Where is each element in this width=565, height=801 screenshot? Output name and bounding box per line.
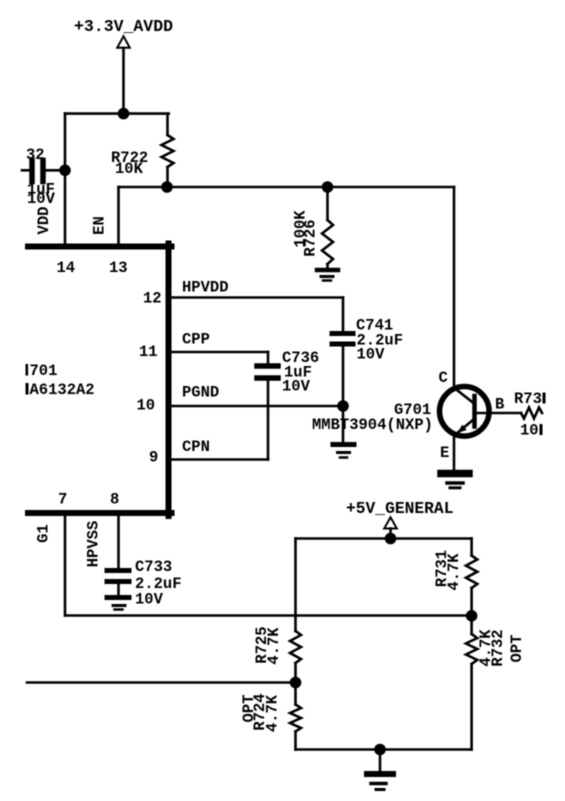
value label 10V: [27, 190, 56, 208]
ground bottom: [367, 774, 393, 790]
label C736: [282, 349, 319, 367]
svg-text:HPVDD: HPVDD: [182, 279, 229, 297]
pin name HPVSS: [85, 521, 103, 568]
wire top horizontal: [65, 112, 169, 115]
IC part TPA6132A2 partial: [26, 381, 95, 399]
resistor R722: [162, 114, 174, 187]
wire ground stub bottom: [379, 750, 382, 772]
node junction PGND C741: [337, 400, 349, 412]
pin number 10: [137, 397, 156, 415]
pin number 9: [149, 449, 158, 467]
wire EN pin 13 drop: [117, 187, 120, 245]
svg-text:11: 11: [139, 343, 158, 361]
power +3.3V_AVDD arrow: [117, 36, 130, 113]
value 4.7K rotated: [264, 694, 282, 732]
ground under C741: [333, 445, 354, 458]
resistor R732: [466, 616, 477, 750]
svg-text:R73: R73: [514, 390, 542, 408]
node junction R722: [161, 181, 173, 193]
svg-text:7: 7: [58, 491, 67, 509]
svg-text:8: 8: [110, 491, 119, 509]
IC refdes U701 partial: [26, 362, 58, 380]
resistor R724: [290, 683, 301, 750]
svg-text:4.7K: 4.7K: [264, 694, 282, 732]
label R724 rotated: [251, 693, 269, 730]
label R731 rotated: [433, 550, 451, 587]
pin name G1: [35, 524, 53, 543]
capacitor C733: [107, 516, 129, 596]
svg-text:R726: R726: [302, 219, 320, 256]
value 4.7K rotated: [265, 627, 283, 665]
resistor R725: [290, 631, 301, 683]
svg-text:C: C: [439, 369, 448, 387]
pin name VDD: [35, 207, 53, 235]
wire HPVDD drop to C741: [342, 298, 345, 333]
wire CPP pin 11: [170, 351, 268, 354]
value 10V: [357, 346, 386, 364]
wire base: [475, 412, 522, 415]
resistor R73x (cut at right): [521, 408, 542, 419]
node junction cap: [59, 165, 71, 177]
resistor R731: [466, 556, 477, 616]
value 10K: [115, 160, 144, 178]
wire from left edge: [27, 681, 296, 684]
pin number 13: [109, 259, 128, 277]
svg-text:10: 10: [520, 422, 539, 440]
label R73 partial: [514, 390, 546, 408]
svg-text:+3.3V_AVDD: +3.3V_AVDD: [74, 17, 173, 36]
capacitor C732 (cut at left edge): [22, 161, 65, 182]
wire CPN pin 9: [170, 458, 268, 461]
svg-text:R732: R732: [489, 629, 507, 666]
svg-text:13: 13: [109, 259, 128, 277]
ground under emitter: [441, 474, 469, 488]
wire left branch VDD pin 14: [64, 114, 67, 245]
wire HPVDD pin 12: [170, 296, 343, 299]
svg-text:E: E: [440, 444, 449, 462]
pin number 12: [143, 290, 162, 308]
wire EN horizontal: [119, 186, 455, 189]
resistor R726: [322, 187, 333, 270]
svg-text:OPT: OPT: [508, 635, 526, 663]
svg-text:G701: G701: [394, 401, 431, 419]
wire CPP drop to C736: [267, 352, 270, 364]
pin name HPVDD: [182, 279, 229, 297]
value 100K rotated: [292, 210, 310, 248]
power +5V_GENERAL label: [346, 499, 453, 518]
node junction R726: [322, 181, 334, 193]
power +5V_GENERAL arrow: [384, 517, 397, 538]
capacitor C736: [257, 366, 278, 460]
pin name CPP: [182, 331, 210, 349]
svg-text:CPN: CPN: [182, 438, 210, 456]
svg-text:10V: 10V: [27, 190, 56, 208]
IC U701 box: [28, 244, 172, 517]
svg-text:PGND: PGND: [182, 384, 219, 402]
pin name EN: [90, 216, 108, 235]
pin number 8: [110, 491, 119, 509]
svg-text:B: B: [495, 396, 504, 414]
node junction R725 R724: [290, 677, 302, 689]
wire right branch drop: [470, 539, 473, 556]
svg-text:EN: EN: [90, 216, 108, 235]
label C733: [135, 558, 172, 576]
svg-text:701: 701: [30, 362, 58, 380]
svg-text:HPVSS: HPVSS: [85, 521, 103, 568]
svg-text:10K: 10K: [115, 160, 144, 178]
svg-text:10V: 10V: [357, 346, 386, 364]
value 1uF: [284, 364, 312, 382]
ground under C733: [107, 598, 129, 610]
node junction +5V: [385, 533, 397, 545]
pin name CPN: [182, 438, 210, 456]
value label 32: [26, 146, 45, 164]
label OPT rotated: [240, 695, 258, 723]
label R726 rotated: [302, 219, 320, 256]
value 10V: [282, 378, 311, 396]
value 4.7K rotated: [477, 629, 495, 667]
value 4.7K rotated: [445, 553, 463, 591]
label G701: [394, 401, 431, 419]
wire left branch drop: [294, 539, 297, 632]
node junction bottom: [374, 744, 386, 756]
pin number 14: [57, 259, 76, 277]
value 2.2uF: [357, 332, 404, 350]
value label 1uF: [27, 181, 55, 199]
node junction R731 R732: [466, 610, 478, 622]
wire ground stub: [342, 406, 345, 444]
label C741: [356, 317, 393, 335]
svg-text:10: 10: [137, 397, 156, 415]
label R732 rotated: [489, 629, 507, 666]
svg-text:9: 9: [149, 449, 158, 467]
pin label C: [439, 369, 448, 387]
svg-text:4.7K: 4.7K: [445, 553, 463, 591]
pin number 7: [58, 491, 67, 509]
svg-text:CPP: CPP: [182, 331, 210, 349]
power +3.3V_AVDD label: [74, 17, 173, 36]
wire bottom rail: [296, 748, 472, 751]
capacitor C741: [332, 334, 353, 407]
svg-text:10V: 10V: [135, 591, 164, 609]
pin label E: [440, 444, 449, 462]
label OPT rotated: [508, 635, 526, 663]
svg-text:+5V_GENERAL: +5V_GENERAL: [346, 499, 453, 518]
wire PGND pin 10: [170, 405, 343, 408]
wire pin 7 down and across: [65, 513, 472, 616]
svg-text:10V: 10V: [282, 378, 311, 396]
svg-text:32: 32: [26, 146, 45, 164]
label R725 rotated: [253, 626, 271, 663]
svg-text:12: 12: [143, 290, 162, 308]
pin number 11: [139, 343, 158, 361]
wire collector drop: [453, 187, 456, 385]
pin name PGND: [182, 384, 219, 402]
label R722: [111, 149, 148, 167]
value 10 partial: [520, 422, 543, 440]
svg-text:C733: C733: [135, 558, 172, 576]
label MMBT3904(NXP): [312, 416, 433, 434]
svg-text:4.7K: 4.7K: [265, 627, 283, 665]
svg-text:VDD: VDD: [35, 207, 53, 235]
transistor Q701: [440, 387, 490, 437]
node junction top: [118, 108, 130, 120]
wire +5V rail: [296, 537, 472, 540]
pin label B: [495, 396, 504, 414]
value 2.2uF: [135, 575, 182, 593]
value 10V: [135, 591, 164, 609]
svg-text:14: 14: [57, 259, 76, 277]
ground under R726: [317, 270, 338, 281]
svg-text:A6132A2: A6132A2: [30, 381, 95, 399]
svg-text:G1: G1: [35, 524, 53, 543]
wire emitter: [453, 436, 456, 470]
